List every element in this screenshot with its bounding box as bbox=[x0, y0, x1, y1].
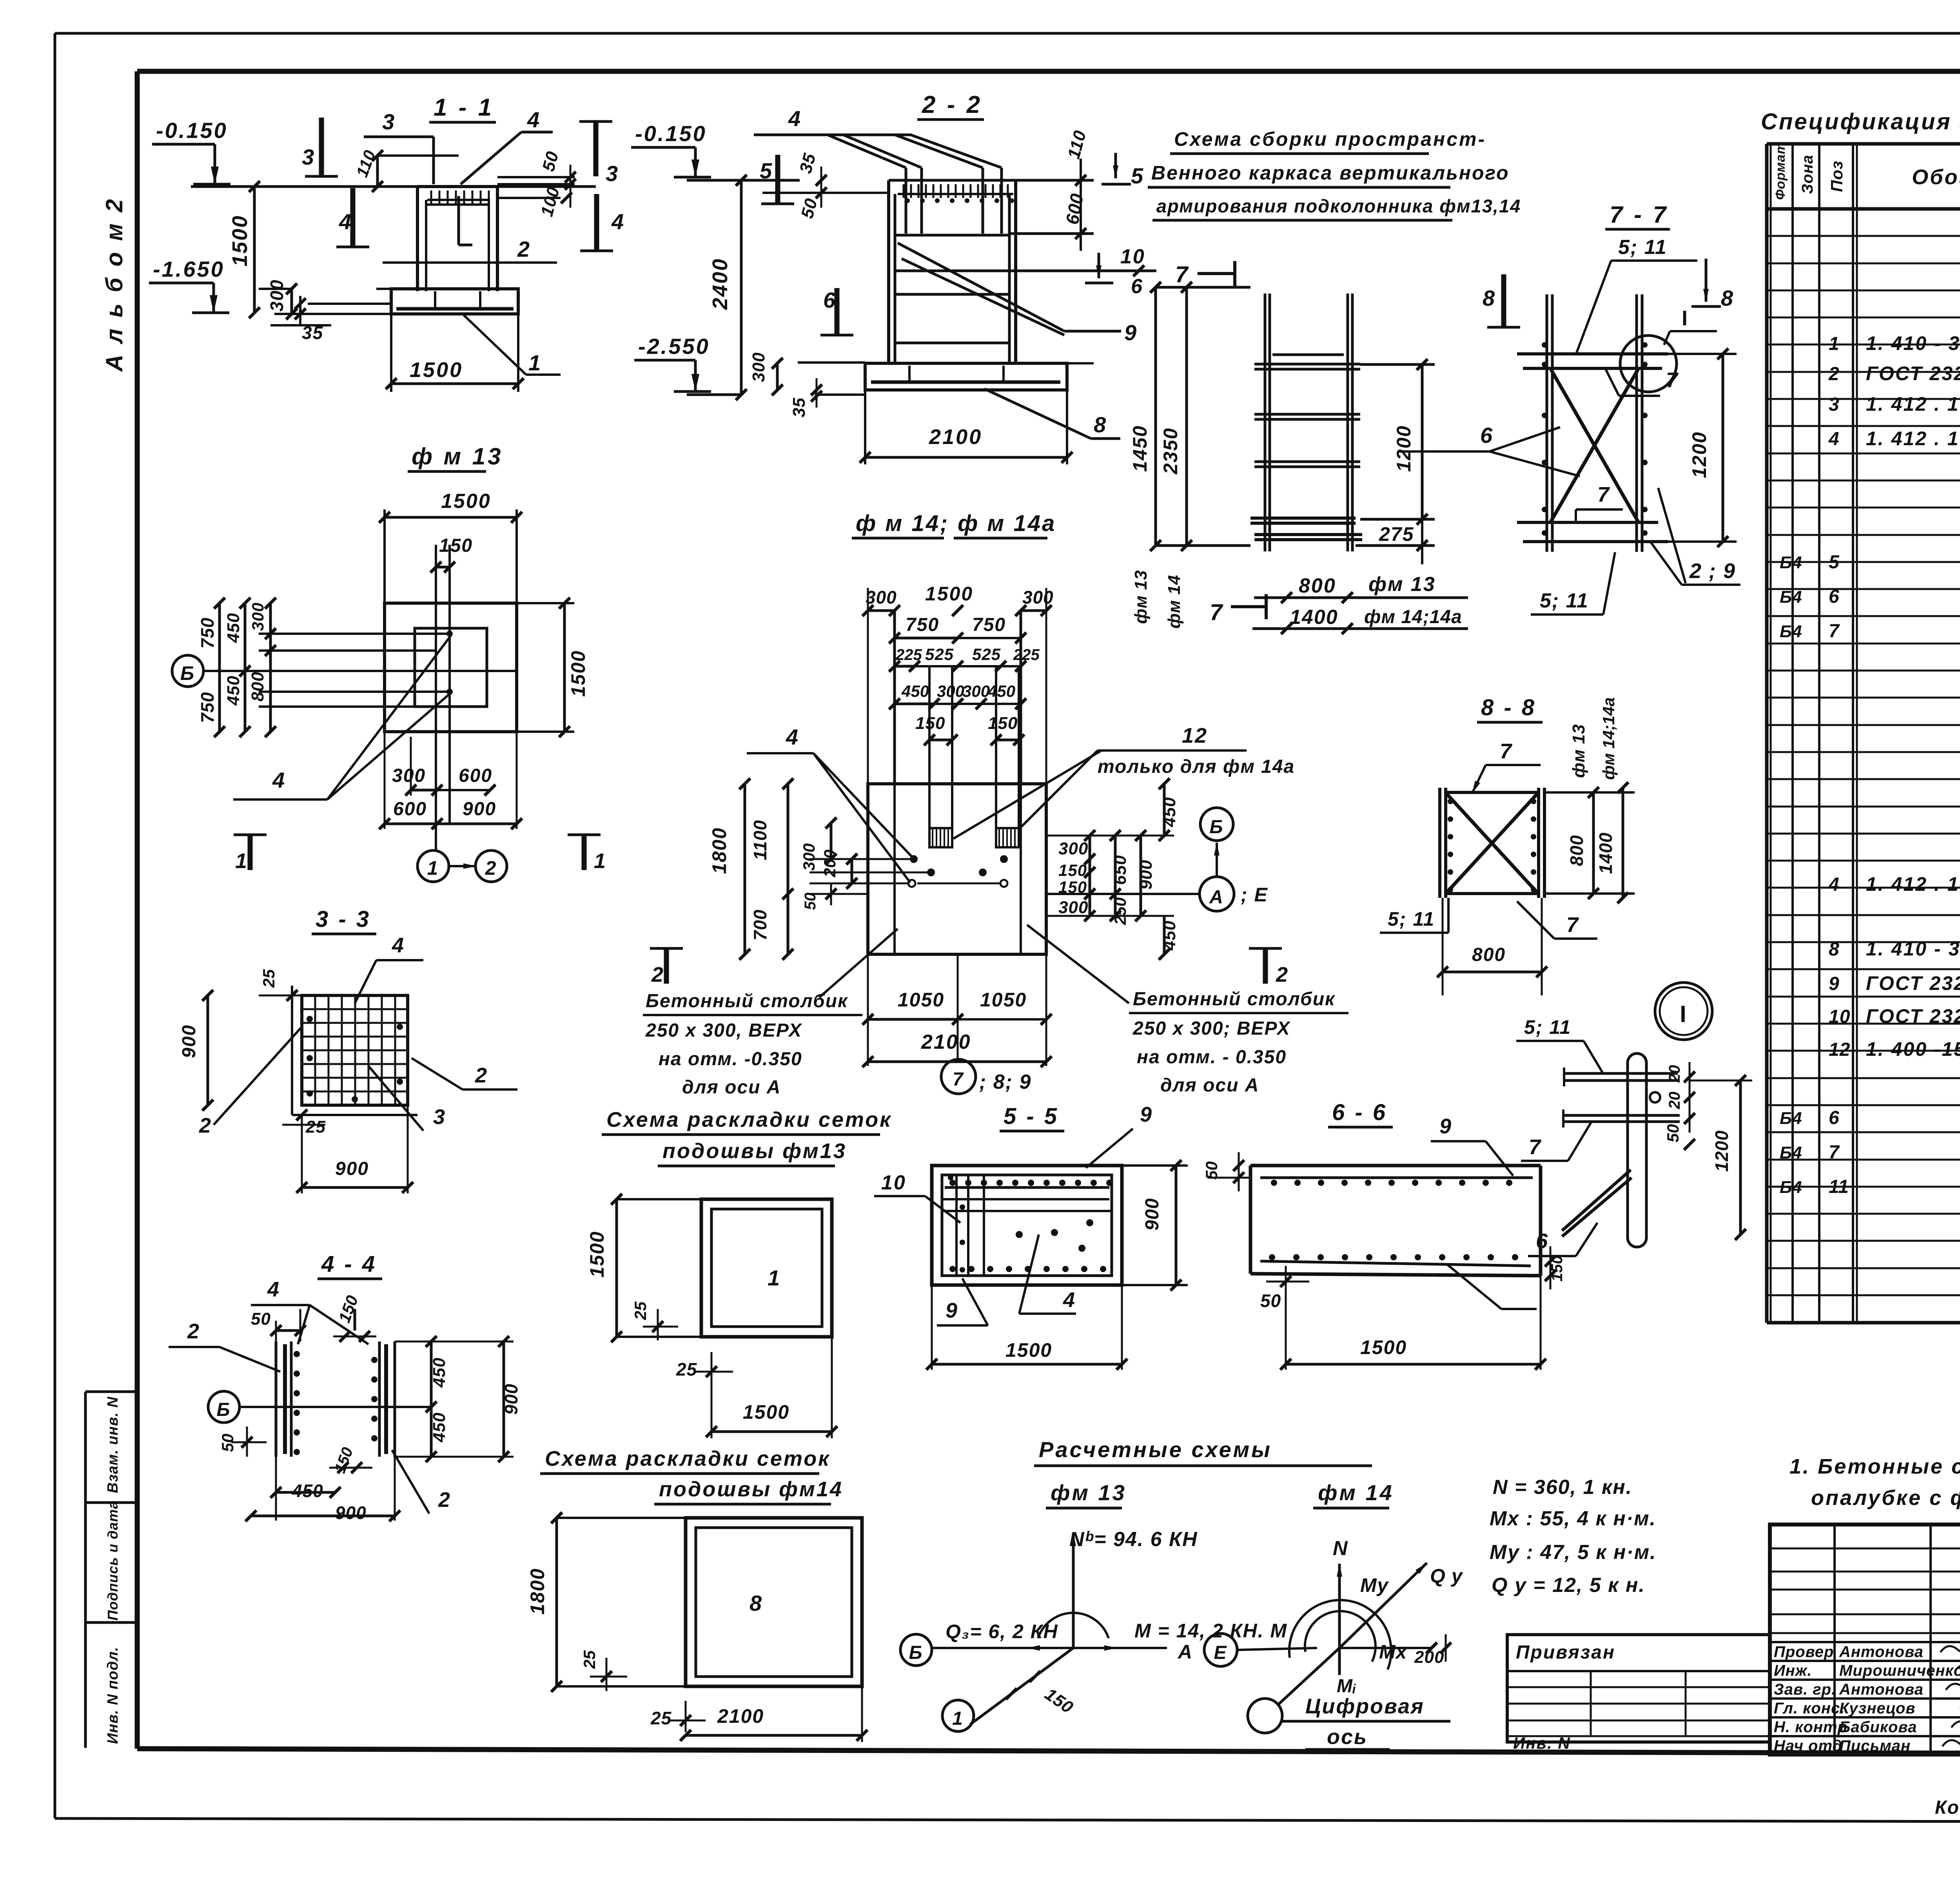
sec4-4 dim 150 top bbox=[333, 1293, 376, 1342]
fm13 section label bbox=[408, 443, 503, 471]
svg-text:1. 412 . 1 - 4. 050: 1. 412 . 1 - 4. 050 bbox=[1866, 393, 1960, 415]
fm14 plan footing bbox=[868, 784, 1046, 954]
svg-text:Поз: Поз bbox=[1828, 161, 1846, 192]
svg-text:1: 1 bbox=[768, 1265, 781, 1290]
svg-text:3: 3 bbox=[433, 1105, 446, 1129]
svg-text:1. 410 - 3. 1 - 12: 1. 410 - 3. 1 - 12 bbox=[1866, 938, 1960, 960]
svg-text:8: 8 bbox=[1721, 286, 1734, 310]
sec8-8 title bbox=[1477, 695, 1543, 722]
sec4-4 right dims bbox=[395, 1336, 521, 1462]
svg-text:подошвы фм14: подошвы фм14 bbox=[659, 1477, 843, 1501]
svg-text:Обозначение: Обозначение bbox=[1912, 165, 1960, 189]
svg-text:1: 1 bbox=[952, 1708, 964, 1729]
svg-text:300: 300 bbox=[937, 682, 964, 700]
sec4-4 label 2 top bbox=[169, 1320, 280, 1372]
calc14 scheme bbox=[1278, 1537, 1463, 1705]
sec4-4 dim 900 bottom bbox=[245, 1457, 400, 1523]
svg-text:1500: 1500 bbox=[410, 358, 463, 382]
svg-text:Венного каркаса вертикального: Венного каркаса вертикального bbox=[1151, 162, 1510, 184]
sec1-1 cut mark 4 right bbox=[580, 194, 625, 251]
sec1-1 dim 1500 v bbox=[228, 181, 260, 318]
svg-text:ф м 14;: ф м 14; bbox=[856, 511, 949, 536]
svg-text:450: 450 bbox=[987, 682, 1015, 700]
spec table header bbox=[1773, 142, 1960, 200]
mesh13 square bbox=[701, 1199, 832, 1337]
sec5-5 label 4 bbox=[1019, 1235, 1076, 1314]
sec1-1 cut mark 4 left bbox=[336, 188, 369, 247]
ladder vertical bars bbox=[1265, 294, 1352, 551]
sec3-3 dim 25 top bbox=[259, 969, 310, 1001]
svg-text:4: 4 bbox=[272, 768, 286, 792]
ladder rungs bbox=[1250, 355, 1362, 540]
fm14 plan cut2 right bbox=[1249, 948, 1289, 986]
calcAE labels bbox=[1177, 1633, 1317, 1666]
fm14 plan dim 2100 bbox=[862, 1031, 1052, 1067]
svg-text:1200: 1200 bbox=[1393, 425, 1415, 472]
svg-text:900: 900 bbox=[1142, 1198, 1163, 1231]
mesh13 dim 25a bbox=[631, 1302, 678, 1340]
sec4-4 dim 50 top bbox=[251, 1309, 306, 1341]
fm14 axis 7 circle bbox=[941, 1059, 1031, 1094]
svg-text:1: 1 bbox=[594, 849, 607, 873]
svg-text:50: 50 bbox=[251, 1309, 271, 1329]
svg-text:1500: 1500 bbox=[441, 490, 491, 513]
album label bbox=[101, 197, 127, 372]
svg-text:Q у: Q у bbox=[1430, 1565, 1463, 1587]
svg-text:25: 25 bbox=[650, 1708, 672, 1728]
svg-text:7 - 7: 7 - 7 bbox=[1610, 201, 1668, 228]
svg-text:900: 900 bbox=[179, 1024, 200, 1058]
sec3-3 label 2 left bbox=[199, 1027, 302, 1137]
svg-text:1. 412 . 1 - 4. 060: 1. 412 . 1 - 4. 060 bbox=[1866, 873, 1960, 895]
sec4-4 plates bbox=[276, 1341, 395, 1457]
svg-text:1. 412 . 1 - 4. 060: 1. 412 . 1 - 4. 060 bbox=[1866, 428, 1960, 450]
svg-text:3: 3 bbox=[606, 161, 619, 186]
x77 label 7 low bbox=[1576, 483, 1623, 522]
svg-text:25: 25 bbox=[676, 1359, 697, 1380]
svg-text:для оси А: для оси А bbox=[1160, 1075, 1259, 1096]
svg-text:300: 300 bbox=[249, 602, 267, 631]
svg-text:2: 2 bbox=[1828, 364, 1840, 384]
svg-text:2: 2 bbox=[651, 963, 664, 986]
sec3-3 label 3 bbox=[361, 1058, 446, 1131]
svg-text:Бетонный столбик: Бетонный столбик bbox=[646, 991, 848, 1012]
svg-text:9: 9 bbox=[946, 1299, 958, 1322]
copied by bbox=[1935, 1797, 1960, 1818]
sec2-2 label 4 bbox=[754, 106, 911, 135]
svg-text:1500: 1500 bbox=[586, 1231, 608, 1278]
fm13 plan left dims bbox=[197, 598, 276, 737]
mesh14 heading bbox=[540, 1447, 843, 1504]
svg-text:300: 300 bbox=[1058, 839, 1088, 858]
svg-text:900: 900 bbox=[335, 1503, 367, 1523]
fm14 plan anchors bbox=[929, 828, 1019, 847]
fm14 plan right dims bbox=[1046, 778, 1179, 960]
svg-text:7: 7 bbox=[1175, 262, 1189, 287]
svg-text:900: 900 bbox=[501, 1383, 521, 1415]
svg-text:800: 800 bbox=[1472, 944, 1506, 965]
spec table content bbox=[1780, 228, 1960, 1298]
sec6-6 dim 50 top bbox=[1202, 1152, 1250, 1191]
fm14 plan dim 150 150 bbox=[915, 714, 1024, 745]
svg-text:; Е: ; Е bbox=[1241, 884, 1268, 906]
calc13 B circle bbox=[900, 1634, 932, 1666]
svg-text:-2.550: -2.550 bbox=[638, 334, 710, 359]
svg-text:-0.150: -0.150 bbox=[156, 118, 228, 143]
svg-text:для оси А: для оси А bbox=[682, 1077, 781, 1098]
sec4-4 label 4 bbox=[251, 1278, 368, 1344]
sec5-5 left bars bbox=[948, 1175, 984, 1276]
fm13 plan cut1 left bbox=[234, 835, 267, 873]
svg-text:2100: 2100 bbox=[717, 1705, 764, 1727]
fm14 note right bbox=[1027, 925, 1348, 1096]
svg-text:Б4: Б4 bbox=[1780, 622, 1802, 641]
svg-text:Н. контр: Н. контр bbox=[1774, 1719, 1847, 1736]
svg-text:Гл. конс.: Гл. конс. bbox=[1774, 1700, 1845, 1717]
svg-text:Мᵢ: Мᵢ bbox=[1337, 1676, 1356, 1697]
ladder dim 1450 2350 bbox=[1129, 282, 1250, 551]
svg-text:ГОСТ 23279- 85: ГОСТ 23279- 85 bbox=[1866, 1005, 1960, 1027]
x77 vertical bars bbox=[1547, 294, 1642, 552]
svg-text:5; 11: 5; 11 bbox=[1618, 236, 1667, 259]
svg-text:2: 2 bbox=[485, 857, 497, 879]
svg-text:армирования подколонника фм13: армирования подколонника фм13,14 bbox=[1156, 196, 1521, 216]
svg-text:450: 450 bbox=[430, 1358, 449, 1388]
svg-text:фм 13: фм 13 bbox=[1051, 1480, 1127, 1505]
svg-text:Привязан: Привязан bbox=[1516, 1642, 1615, 1663]
privyazan text bbox=[1516, 1642, 1615, 1663]
calc fm13 label bbox=[1046, 1480, 1127, 1508]
svg-text:2: 2 bbox=[1276, 963, 1289, 986]
svg-text:7: 7 bbox=[1500, 740, 1513, 763]
sec8-8 label 7 top bbox=[1472, 740, 1541, 794]
sec4-4 label 2 bottom bbox=[372, 1427, 451, 1514]
sec1-1 dim 110 bbox=[352, 147, 459, 192]
svg-text:Зав. гр.: Зав. гр. bbox=[1774, 1681, 1836, 1698]
svg-text:1. 410 - 3. 1 - 12: 1. 410 - 3. 1 - 12 bbox=[1866, 332, 1960, 354]
mesh13 dim 25b bbox=[676, 1352, 733, 1383]
svg-text:25: 25 bbox=[631, 1302, 650, 1320]
svg-text:Бабикова: Бабикова bbox=[1839, 1719, 1917, 1736]
sec2-2 dim 2400 bbox=[708, 175, 747, 400]
spec table title bbox=[1761, 109, 1960, 134]
mesh13 dim 1500 bottom bbox=[706, 1337, 837, 1438]
svg-text:6: 6 bbox=[1480, 423, 1494, 448]
svg-text:1: 1 bbox=[528, 350, 542, 375]
fm13 plan axis B circle bbox=[172, 655, 203, 687]
svg-text:900: 900 bbox=[335, 1158, 369, 1179]
svg-text:9: 9 bbox=[1829, 973, 1840, 994]
sec5-5 mid dots bbox=[1016, 1219, 1093, 1252]
svg-text:150: 150 bbox=[439, 535, 473, 556]
fm13 plan axes 1-2 bbox=[417, 824, 507, 882]
svg-text:фм 13: фм 13 bbox=[1368, 573, 1436, 596]
svg-text:4: 4 bbox=[611, 209, 625, 234]
svg-text:2400: 2400 bbox=[708, 258, 732, 310]
sec8-8 diagonals bbox=[1446, 794, 1537, 893]
svg-text:1500: 1500 bbox=[567, 650, 589, 697]
sec1-1 line 2 label bbox=[383, 237, 557, 263]
x77 nubs bbox=[1542, 342, 1648, 536]
svg-text:12: 12 bbox=[1182, 724, 1208, 747]
svg-text:1500: 1500 bbox=[228, 215, 252, 266]
svg-text:4: 4 bbox=[527, 107, 541, 132]
svg-text:Подпись и дата: Подпись и дата bbox=[105, 1501, 121, 1621]
sec1-1 right slab lines bbox=[497, 177, 575, 198]
sec4-4 plate dots bbox=[294, 1351, 377, 1455]
sec5-5 dim 900 bbox=[1122, 1160, 1188, 1291]
svg-text:450: 450 bbox=[430, 1412, 449, 1443]
sec1-1 cut mark 3 left bbox=[302, 118, 338, 176]
svg-text:5: 5 bbox=[1829, 552, 1840, 573]
sec2-2 cut 5 left bbox=[760, 155, 794, 204]
inv n text bbox=[1513, 1734, 1571, 1752]
ladder axis labels rotated bbox=[1131, 570, 1184, 629]
svg-text:Инв. N: Инв. N bbox=[1513, 1734, 1571, 1752]
mesh14 dim 2100 bottom bbox=[680, 1686, 867, 1742]
mesh14 dim 25b bbox=[650, 1701, 706, 1732]
svg-text:800: 800 bbox=[1299, 575, 1336, 597]
sec2-2 leader 8 bbox=[984, 389, 1120, 439]
svg-text:Инж.: Инж. bbox=[1774, 1662, 1812, 1679]
svg-text:1: 1 bbox=[235, 849, 248, 873]
sec2-2 dim 110 600 bbox=[1062, 128, 1090, 251]
ladder dim 275 bbox=[1356, 519, 1435, 564]
svg-text:4: 4 bbox=[786, 725, 799, 749]
svg-text:4: 4 bbox=[1828, 874, 1840, 895]
detailI dims bbox=[1664, 1062, 1752, 1240]
fm13 plan dim row1 bbox=[392, 737, 495, 796]
svg-text:фм 13: фм 13 bbox=[1569, 724, 1588, 778]
svg-text:-0.150: -0.150 bbox=[635, 121, 707, 146]
fm13 plan dim 150 bbox=[430, 535, 473, 611]
svg-text:2100: 2100 bbox=[929, 425, 982, 449]
x77 diagonals bbox=[1550, 368, 1639, 522]
svg-text:2100: 2100 bbox=[921, 1031, 971, 1053]
sec5-5 title bbox=[1000, 1104, 1064, 1131]
sec1-1 pedestal bbox=[417, 187, 497, 291]
sec5-5 label 9 top bbox=[1086, 1103, 1153, 1168]
svg-text:N = 360, 1 кн.: N = 360, 1 кн. bbox=[1493, 1476, 1632, 1499]
calc13 axis1 circle bbox=[942, 1700, 974, 1731]
svg-text:фм 14: фм 14 bbox=[1165, 575, 1184, 629]
svg-text:Б4: Б4 bbox=[1780, 553, 1802, 572]
sec2-2 blinding bbox=[798, 363, 1094, 395]
x77 label 7 mid bbox=[1605, 368, 1679, 396]
sec2-2 cut 6 right bbox=[1085, 253, 1113, 283]
svg-text:525: 525 bbox=[925, 645, 954, 663]
sec2-2 level -2.550 bbox=[634, 334, 711, 392]
sec6-6 dim 1500 bbox=[1280, 1276, 1546, 1370]
sec5-5 rect bbox=[932, 1166, 1122, 1285]
mesh14 square bbox=[686, 1518, 862, 1686]
sec3-3 mesh square bbox=[302, 995, 408, 1105]
x77 label 511 top bbox=[1576, 236, 1697, 355]
svg-text:200: 200 bbox=[820, 850, 839, 877]
svg-text:25: 25 bbox=[580, 1650, 599, 1669]
fm14 plan dim 750 750 bbox=[889, 615, 1026, 644]
sec5-5 label 9 bottom bbox=[937, 1278, 988, 1325]
svg-text:300: 300 bbox=[1022, 587, 1054, 607]
sec2-2 horizontal bars bbox=[895, 234, 1156, 343]
svg-text:4: 4 bbox=[392, 934, 405, 957]
fm14 plan dots bbox=[908, 855, 1008, 887]
svg-text:7: 7 bbox=[1829, 1142, 1840, 1163]
sec2-2 cut 6 left bbox=[820, 288, 853, 335]
svg-text:Q₃= 6, 2 КН: Q₃= 6, 2 КН bbox=[946, 1621, 1058, 1642]
calc14 label axis bbox=[1282, 1695, 1450, 1749]
svg-text:ф м 13: ф м 13 bbox=[412, 443, 503, 470]
svg-text:225: 225 bbox=[1013, 646, 1040, 663]
x77 label 511 bottom bbox=[1531, 552, 1615, 615]
svg-text:1500: 1500 bbox=[1005, 1339, 1052, 1361]
svg-text:Зона: Зона bbox=[1799, 154, 1816, 194]
sec2-2 level -0.150 bbox=[631, 121, 711, 177]
fm13 plan mesh wires bbox=[259, 631, 453, 707]
svg-text:300: 300 bbox=[962, 682, 990, 700]
svg-text:20: 20 bbox=[1666, 1065, 1683, 1083]
sec1-1 level -1.650 bbox=[149, 257, 229, 313]
sec4-4 axis B bbox=[208, 1391, 240, 1423]
svg-text:Му : 47, 5 к н·м.: Му : 47, 5 к н·м. bbox=[1490, 1541, 1657, 1564]
svg-text:2: 2 bbox=[517, 237, 531, 261]
svg-text:Расчетные схемы: Расчетные схемы bbox=[1039, 1437, 1272, 1462]
fm13 plan dim row2 bbox=[379, 732, 522, 829]
svg-text:5: 5 bbox=[1131, 163, 1144, 188]
svg-text:2: 2 bbox=[438, 1488, 451, 1512]
sec2-2 col mesh bbox=[898, 184, 1014, 203]
svg-text:5; 11: 5; 11 bbox=[1540, 589, 1589, 612]
fm13 plan cut1 right bbox=[568, 835, 607, 873]
svg-text:2350: 2350 bbox=[1160, 428, 1181, 475]
sec4-4 title bbox=[318, 1251, 382, 1279]
svg-text:только для фм 14а: только для фм 14а bbox=[1098, 756, 1295, 777]
fm14 note left bbox=[643, 929, 906, 1098]
detailI label 6 bbox=[1528, 1223, 1597, 1256]
svg-text:I: I bbox=[1680, 1001, 1688, 1027]
x77 title bbox=[1605, 201, 1670, 229]
svg-text:6: 6 bbox=[1536, 1229, 1549, 1253]
section 1-1 title bbox=[429, 94, 496, 122]
svg-text:450: 450 bbox=[1160, 921, 1179, 951]
svg-text:150: 150 bbox=[988, 714, 1018, 733]
svg-text:ось: ось bbox=[1327, 1725, 1368, 1749]
sec5-5 bottom dots bbox=[949, 1266, 1106, 1272]
detailI label 511 bbox=[1516, 1016, 1603, 1074]
privyazan box bbox=[1507, 1635, 1770, 1742]
sec8-8 dim 800 bbox=[1437, 898, 1547, 995]
sidebar stamp boxes bbox=[85, 1392, 137, 1748]
sec6-6 rect bbox=[1250, 1166, 1541, 1276]
svg-text:9: 9 bbox=[1140, 1103, 1153, 1126]
svg-text:Нач отд: Нач отд bbox=[1774, 1737, 1842, 1755]
fm14 plan inner wires bbox=[809, 859, 1200, 894]
sec3-3 brackets bbox=[292, 986, 417, 1115]
sec1-1 ground line bbox=[191, 185, 596, 188]
sec1-1 level -0.150 bbox=[152, 118, 230, 184]
svg-text:4: 4 bbox=[1828, 429, 1840, 450]
svg-text:1800: 1800 bbox=[708, 827, 730, 874]
svg-text:1: 1 bbox=[427, 857, 439, 879]
sec8-8 dots bbox=[1448, 799, 1536, 892]
svg-text:Спецификация элементов монол: Спецификация элементов монолитной констр… bbox=[1761, 109, 1960, 134]
fm14 plan dim 1050 bbox=[862, 954, 1052, 1066]
sec1-1 blinding lines bbox=[274, 289, 518, 314]
svg-text:Nᵇ= 94. 6 КН: Nᵇ= 94. 6 КН bbox=[1069, 1528, 1198, 1551]
svg-text:1500: 1500 bbox=[743, 1401, 789, 1423]
sec2-2 dim 35 50 bbox=[762, 151, 889, 221]
svg-text:5 - 5: 5 - 5 bbox=[1004, 1104, 1059, 1129]
svg-text:10: 10 bbox=[1829, 1006, 1850, 1027]
sec3-3 dim 900 left bbox=[179, 990, 302, 1111]
detailI label 7 bbox=[1521, 1122, 1592, 1161]
fm14 plan dim 225 525 bbox=[889, 645, 1040, 672]
svg-text:300: 300 bbox=[267, 279, 287, 312]
svg-text:; 8; 9: ; 8; 9 bbox=[979, 1071, 1031, 1093]
sec6-6 dim 150 right bbox=[1545, 1246, 1566, 1289]
svg-text:450: 450 bbox=[292, 1481, 323, 1501]
sec2-2 leader 9 bbox=[898, 243, 1138, 345]
svg-text:Провер: Провер bbox=[1774, 1643, 1834, 1661]
svg-text:Б: Б bbox=[217, 1399, 231, 1420]
svg-text:9: 9 bbox=[1124, 320, 1138, 345]
fm14 plan cut2 left bbox=[650, 948, 683, 986]
svg-text:650: 650 bbox=[1111, 855, 1130, 885]
svg-text:Мх: Мх bbox=[1379, 1641, 1408, 1663]
sec1-1 footing bbox=[376, 289, 518, 314]
svg-text:фм 14;14а: фм 14;14а bbox=[1364, 607, 1462, 627]
svg-text:N: N bbox=[1333, 1537, 1349, 1560]
svg-text:1200: 1200 bbox=[1711, 1130, 1732, 1172]
svg-text:750: 750 bbox=[197, 692, 218, 723]
svg-text:Письман: Письман bbox=[1839, 1737, 1911, 1755]
svg-text:750: 750 bbox=[906, 615, 939, 635]
title block names bbox=[1774, 1643, 1960, 1755]
svg-text:1800: 1800 bbox=[526, 1568, 548, 1615]
calc13 diagonal bbox=[970, 1648, 1077, 1724]
svg-text:1050: 1050 bbox=[980, 989, 1027, 1011]
sec1-1 dim 300 v bbox=[259, 279, 391, 319]
svg-text:2 ; 9: 2 ; 9 bbox=[1689, 559, 1736, 583]
svg-text:1400: 1400 bbox=[1595, 832, 1616, 874]
sec6-6 dim 50 bottom bbox=[1260, 1266, 1309, 1311]
svg-text:250: 250 bbox=[1111, 897, 1129, 925]
svg-text:7: 7 bbox=[1597, 483, 1610, 506]
sec5-5 label 10 bbox=[874, 1171, 960, 1223]
calc13 M label bbox=[1134, 1620, 1287, 1642]
fm14 plan label 4 bbox=[747, 725, 913, 883]
detailI cross bars bbox=[1563, 1068, 1680, 1128]
svg-text:4: 4 bbox=[1063, 1288, 1076, 1312]
svg-text:1. 400 -15. 8 1: 1. 400 -15. 8 1 bbox=[1866, 1038, 1960, 1060]
svg-text:8: 8 bbox=[1829, 939, 1840, 960]
svg-text:Цифровая: Цифровая bbox=[1305, 1695, 1425, 1718]
mesh13 heading bbox=[602, 1108, 892, 1166]
svg-text:Антонова: Антонова bbox=[1839, 1681, 1924, 1698]
mesh14 dim 25a bbox=[580, 1650, 627, 1691]
svg-text:6: 6 bbox=[1829, 1108, 1840, 1128]
svg-text:2: 2 bbox=[475, 1064, 488, 1087]
sec1-1 dim 35 bbox=[270, 296, 331, 343]
svg-text:7: 7 bbox=[1566, 913, 1579, 937]
sec2-2 anchor bars bbox=[828, 135, 1002, 234]
svg-text:3: 3 bbox=[1829, 394, 1840, 415]
sec8-8 label 7 bottom bbox=[1517, 901, 1597, 939]
fm14 section label bbox=[852, 511, 1056, 538]
svg-text:300: 300 bbox=[749, 352, 768, 382]
fm13 plan right dim 1500 bbox=[517, 598, 589, 737]
section 2-2 title bbox=[917, 91, 984, 120]
